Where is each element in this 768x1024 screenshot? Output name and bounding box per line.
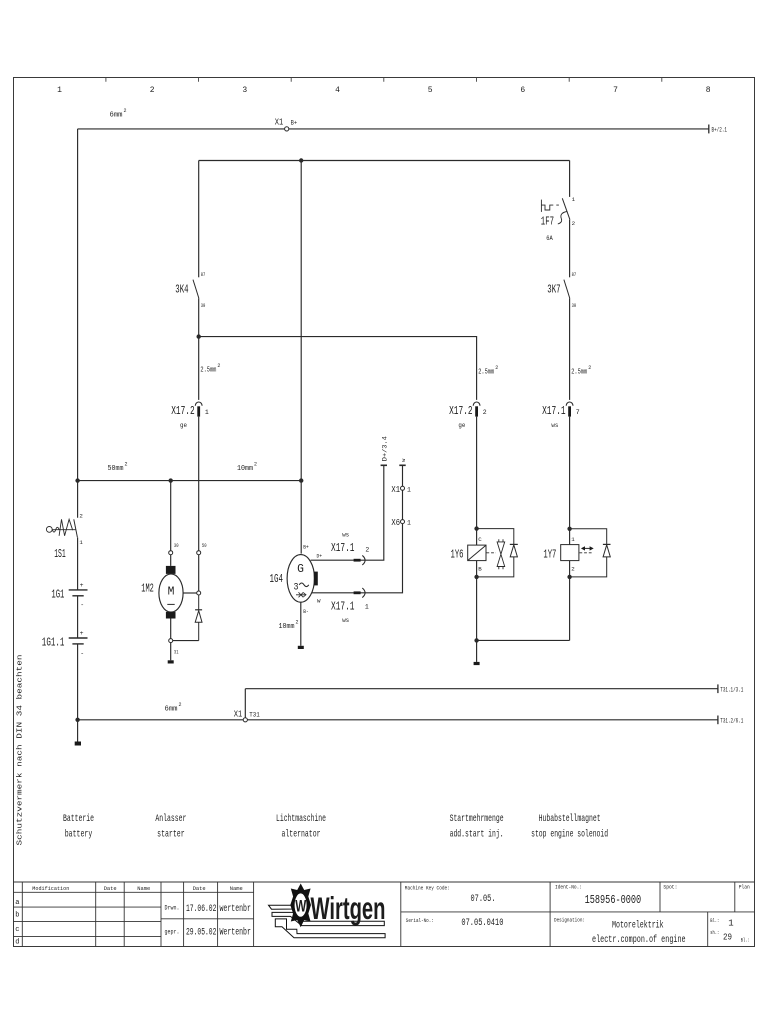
wire drop to 1F7 <box>569 161 571 197</box>
interface arrow T31.2/6.1 <box>717 716 719 725</box>
svg-text:Hubabstellmagnet: Hubabstellmagnet <box>539 813 601 825</box>
caption alternator <box>276 813 326 841</box>
wire X17.1:7 to 1Y7 <box>569 417 571 545</box>
caption battery <box>63 813 94 841</box>
svg-text:Plan: Plan <box>739 883 750 890</box>
svg-text:7: 7 <box>613 86 618 95</box>
ground alternator <box>298 646 304 649</box>
svg-text:X17.2: X17.2 <box>171 405 195 418</box>
svg-text:2: 2 <box>217 363 220 369</box>
svg-text:wertenbr: wertenbr <box>219 903 251 915</box>
svg-text:6A: 6A <box>546 235 553 242</box>
svg-text:07.05.: 07.05. <box>471 894 496 905</box>
wire T31.1 branch <box>245 688 718 690</box>
svg-text:87: 87 <box>201 271 206 278</box>
svg-text:X1: X1 <box>275 116 284 127</box>
wire 1Y7 to ground bus <box>569 561 571 641</box>
wire down to X17.2 pin1 <box>198 337 200 400</box>
svg-text:3K7: 3K7 <box>547 283 560 296</box>
terminator w mark <box>399 464 405 466</box>
ground battery <box>75 742 81 746</box>
svg-text:electr.compon.of engine: electr.compon.of engine <box>592 934 686 946</box>
svg-text:7: 7 <box>576 409 580 416</box>
wire 1G1.1 to bottom bus and ground <box>77 644 79 742</box>
title block header texts <box>32 885 243 892</box>
wire second bus (switched B+) <box>199 160 570 162</box>
label 50mm2 <box>108 462 128 474</box>
junction second bus / alternator column <box>299 158 303 162</box>
svg-text:50mm: 50mm <box>108 465 124 473</box>
svg-text:Modification: Modification <box>32 885 69 892</box>
svg-text:1G1.1: 1G1.1 <box>42 636 65 649</box>
revision row letters a b c d <box>15 899 19 947</box>
battery 1G1 <box>69 589 88 591</box>
svg-text:1: 1 <box>79 539 83 546</box>
svg-text:Anlasser: Anlasser <box>155 813 186 825</box>
connector X17.1 pin 2 inline <box>354 555 365 565</box>
svg-text:C: C <box>478 536 482 543</box>
junction 3K4 output node <box>197 334 201 338</box>
logo ring <box>293 892 307 918</box>
svg-text:2: 2 <box>150 86 155 95</box>
logo machine stripe upper <box>269 905 297 909</box>
svg-text:2: 2 <box>571 565 575 572</box>
label 10mm2 (B- wire) <box>279 620 299 632</box>
title block grid lines <box>13 882 754 947</box>
wire X17.2:1 to starter pin 50 <box>198 417 200 551</box>
svg-text:D+/3.4: D+/3.4 <box>381 436 388 461</box>
switch 1S1 blade <box>74 519 78 537</box>
svg-text:07.05.0410: 07.05.0410 <box>461 918 503 929</box>
wire motor bottom to pin 31 <box>170 619 172 639</box>
svg-text:31: 31 <box>174 648 179 655</box>
svg-text:X6: X6 <box>391 517 400 528</box>
svg-text:B+/2.1: B+/2.1 <box>712 126 728 133</box>
svg-text:+: + <box>80 582 84 589</box>
solenoid 1Y7 coil <box>561 545 579 561</box>
solenoid terminal circle <box>197 591 201 595</box>
svg-text:10mm: 10mm <box>237 465 253 473</box>
wire starter feed 30 <box>170 481 172 551</box>
solenoid valve 1Y6 coil <box>468 545 486 561</box>
svg-text:W: W <box>317 597 321 604</box>
svg-text:1G1: 1G1 <box>51 588 64 601</box>
svg-text:Schutzvermerk nach DIN 34 beac: Schutzvermerk nach DIN 34 beachten <box>17 655 25 846</box>
svg-text:Batterie: Batterie <box>63 813 94 825</box>
alternator 1G4 <box>287 555 318 603</box>
svg-text:Machine Key Code:: Machine Key Code: <box>405 884 450 891</box>
svg-text:2: 2 <box>365 547 369 554</box>
svg-text:-: - <box>80 602 84 609</box>
svg-text:Name: Name <box>137 885 150 892</box>
svg-text:4: 4 <box>335 86 340 95</box>
ruler tick marks top border <box>106 78 662 82</box>
label 10mm2 bus <box>237 462 257 474</box>
wire ground bus 1Y6-1Y7 <box>477 639 570 641</box>
svg-text:X1: X1 <box>391 484 400 495</box>
svg-text:2.5mm: 2.5mm <box>478 369 494 377</box>
svg-text:50: 50 <box>202 542 207 549</box>
terminal X1 T31 <box>243 718 247 722</box>
connector X17.1 pin 1 inline <box>354 588 365 598</box>
wire motor to solenoid terminal <box>183 592 197 594</box>
interface arrow T31.1/3.1 <box>717 684 719 693</box>
svg-text:3: 3 <box>294 582 299 593</box>
wire pin31 to diode branch <box>173 640 199 642</box>
wire X17.2:2 to 1Y6 <box>476 417 478 545</box>
svg-text:1M2: 1M2 <box>141 582 154 595</box>
wire 3K7 to X17.1 pin7 <box>569 298 571 400</box>
svg-text:Serial-No.:: Serial-No.: <box>406 917 434 924</box>
caption stop engine solenoid <box>531 813 608 841</box>
svg-text:1: 1 <box>407 520 411 527</box>
svg-text:w: w <box>401 458 407 462</box>
wire T31.1 drop to X1 T31 <box>244 689 246 718</box>
svg-text:6mm: 6mm <box>165 706 178 714</box>
svg-text:2.5mm: 2.5mm <box>571 369 587 377</box>
svg-text:W: W <box>295 897 307 916</box>
svg-text:starter: starter <box>157 829 185 841</box>
logo machine stripe lower with bottom band <box>275 919 385 938</box>
svg-text:battery: battery <box>65 829 93 841</box>
svg-text:-: - <box>80 650 84 657</box>
svg-text:1F7: 1F7 <box>541 215 554 228</box>
svg-text:1S1: 1S1 <box>54 548 66 561</box>
svg-text:10mm: 10mm <box>279 623 295 631</box>
svg-text:Wirtgen: Wirtgen <box>311 890 386 926</box>
svg-text:1: 1 <box>205 409 209 416</box>
svg-text:1: 1 <box>365 603 369 610</box>
starter 1M2 pin 50 <box>197 551 201 555</box>
svg-text:sh.:: sh.: <box>710 929 719 936</box>
svg-text:2: 2 <box>495 365 498 371</box>
svg-text:D+: D+ <box>317 553 323 560</box>
svg-text:2: 2 <box>254 462 257 468</box>
svg-text:Spot:: Spot: <box>663 883 677 890</box>
junction starter feed <box>169 478 173 482</box>
connector X17.2 pin 1 <box>195 402 202 417</box>
interface arrow B+/2.1 <box>708 125 710 134</box>
junction ground bus <box>474 638 478 642</box>
starter 1M2 pin 31 <box>169 639 173 643</box>
wire 1F7 to 3K7 <box>569 220 571 278</box>
svg-text:X17.1: X17.1 <box>331 542 355 555</box>
breaker 1F7 <box>541 198 570 224</box>
svg-text:5: 5 <box>428 86 433 95</box>
wire D+ to X17.1 pin 2 <box>311 466 384 560</box>
diode 1M2 freewheel <box>195 595 202 641</box>
adjustment arrow 1Y7 <box>579 546 593 553</box>
svg-text:B: B <box>478 565 482 572</box>
svg-text:1: 1 <box>57 86 62 95</box>
relay contact 3K4 <box>193 280 199 299</box>
svg-text:2: 2 <box>483 409 487 416</box>
label 6mm2 bottom bus <box>165 702 182 714</box>
svg-text:1: 1 <box>728 918 733 928</box>
svg-text:ge: ge <box>458 422 465 429</box>
diode 1Y6 suppressor branch <box>477 529 518 577</box>
wire main vertical to alternator B+ <box>300 161 302 554</box>
wire to ground 1Y6 <box>476 640 478 662</box>
svg-text:30: 30 <box>572 302 577 309</box>
svg-text:6mm: 6mm <box>110 112 123 120</box>
switch 1S1 actuator symbol <box>46 519 75 536</box>
svg-text:8: 8 <box>706 86 711 95</box>
svg-text:X17.1: X17.1 <box>542 405 566 418</box>
svg-text:Startmehrmenge: Startmehrmenge <box>450 813 504 825</box>
svg-text:2: 2 <box>179 702 182 708</box>
svg-text:c: c <box>15 926 19 934</box>
svg-text:Bl.:: Bl.: <box>710 917 719 924</box>
junction 1Y6 bottom <box>474 575 478 579</box>
machine key / ident block <box>405 883 750 946</box>
svg-text:d: d <box>15 938 19 946</box>
svg-text:B-: B- <box>303 608 309 615</box>
relay contact 3K7 <box>564 280 570 299</box>
svg-text:Name: Name <box>230 885 243 892</box>
wire 3K4 to node <box>198 298 200 336</box>
svg-text:2: 2 <box>124 108 127 114</box>
svg-text:87: 87 <box>572 271 577 278</box>
junction 1Y7 bottom <box>567 575 571 579</box>
svg-text:1: 1 <box>407 486 411 493</box>
wire top B+ bus 6mm2 <box>78 128 709 130</box>
svg-text:G: G <box>297 562 304 576</box>
svg-text:b: b <box>15 912 19 920</box>
svg-text:X1: X1 <box>234 708 243 719</box>
junction 1Y7 diode branch top <box>567 527 571 531</box>
svg-text:B+: B+ <box>291 119 298 126</box>
svg-text:2: 2 <box>79 513 83 520</box>
junction 1Y6 diode branch top <box>474 526 478 530</box>
svg-text:Drwn.: Drwn. <box>165 905 180 912</box>
svg-text:T31: T31 <box>249 711 260 718</box>
svg-text:+: + <box>80 630 84 637</box>
logo machine stripe middle with long band under text <box>272 912 384 925</box>
svg-text:Motorelektrik: Motorelektrik <box>612 919 664 931</box>
wire 50mm2 bus battery to alternator <box>78 480 302 482</box>
ground 1Y6 <box>474 662 480 665</box>
terminator D+/3.4 <box>381 464 387 466</box>
svg-text:stop engine solenoid: stop engine solenoid <box>531 829 608 841</box>
svg-text:3: 3 <box>242 86 247 95</box>
label 2.5mm2 (X17.2:2) <box>478 365 498 377</box>
svg-text:30: 30 <box>201 302 206 309</box>
svg-text:2: 2 <box>588 365 591 371</box>
svg-text:Date: Date <box>104 885 117 892</box>
logo star emblem <box>290 884 311 928</box>
label 6mm2 top bus <box>110 108 127 120</box>
caption add start injection <box>450 813 504 841</box>
svg-text:ws: ws <box>342 617 349 624</box>
wire 1G1 to 1G1.1 <box>77 596 79 638</box>
svg-text:M: M <box>168 585 175 598</box>
svg-text:T31.2/6.1: T31.2/6.1 <box>720 718 743 725</box>
battery 1G1.1 <box>69 637 88 639</box>
junction battery / bottom bus <box>75 718 79 722</box>
svg-text:1: 1 <box>572 196 576 203</box>
svg-text:ws: ws <box>342 531 349 538</box>
ground starter <box>168 660 174 663</box>
svg-text:Lichtmaschine: Lichtmaschine <box>276 813 326 825</box>
svg-text:2: 2 <box>296 620 299 626</box>
diode 1Y7 suppressor branch <box>570 529 611 577</box>
svg-text:X17.2: X17.2 <box>449 405 473 418</box>
starter 1M2 pin 30 <box>169 551 173 555</box>
svg-text:X17.1: X17.1 <box>331 600 355 613</box>
Wirtgen logo <box>269 884 386 938</box>
svg-text:3K4: 3K4 <box>175 283 188 296</box>
connector X17.1 pin 7 <box>566 402 573 417</box>
wire bottom ground bus 6mm2 <box>78 719 718 721</box>
svg-text:Bl.:: Bl.: <box>741 936 750 943</box>
svg-text:2: 2 <box>572 220 576 227</box>
svg-text:Date: Date <box>193 885 206 892</box>
svg-text:1Y6: 1Y6 <box>451 548 464 561</box>
svg-text:6: 6 <box>520 86 525 95</box>
svg-text:gepr.: gepr. <box>165 928 180 935</box>
label 2.5mm2 (X17.1:7) <box>571 365 591 377</box>
wire W to X1/X6 column <box>312 466 403 593</box>
wire pin50 to solenoid terminal <box>198 555 200 591</box>
wire 1S1 to battery 1G1 <box>77 538 79 590</box>
svg-text:29: 29 <box>723 932 732 942</box>
wire drop to 3K4 <box>198 161 200 278</box>
svg-text:add.start inj.: add.start inj. <box>450 829 504 841</box>
svg-text:2: 2 <box>125 462 128 468</box>
motor 1M2 <box>159 555 183 619</box>
wire B- to ground <box>300 602 302 646</box>
wire 1Y6 to ground bus <box>476 561 478 641</box>
wire bus to 1Y6 column <box>199 337 477 400</box>
svg-text:1G4: 1G4 <box>270 573 284 586</box>
svg-text:a: a <box>15 899 19 907</box>
svg-text:T31.1/3.1: T31.1/3.1 <box>720 686 743 693</box>
terminal X1 B+ on top bus <box>285 127 289 131</box>
svg-text:2.5mm: 2.5mm <box>200 367 216 375</box>
valve symbol 1Y6 <box>486 539 504 569</box>
ruler column numbers <box>57 86 711 95</box>
svg-text:17.06.02: 17.06.02 <box>186 903 217 915</box>
wire left main vertical (battery feed) <box>77 129 79 518</box>
svg-text:30: 30 <box>174 542 179 549</box>
svg-text:ws: ws <box>551 422 558 429</box>
junction battery / 50mm2 bus <box>75 478 79 482</box>
svg-text:ge: ge <box>180 422 187 429</box>
caption starter <box>155 813 186 841</box>
terminal X6 pin 1 <box>401 520 405 524</box>
wire pin 31 to ground <box>170 643 172 661</box>
svg-text:158956-0000: 158956-0000 <box>585 893 642 907</box>
svg-text:29.05.02: 29.05.02 <box>186 926 217 938</box>
drawn / approved block <box>165 903 251 939</box>
terminal X1 pin 1 <box>401 486 405 490</box>
svg-text:1: 1 <box>571 536 575 543</box>
svg-text:Designation:: Designation: <box>554 916 585 923</box>
svg-text:B+: B+ <box>303 544 309 551</box>
connector X17.2 pin 2 <box>473 402 480 417</box>
svg-text:Ident-No.:: Ident-No.: <box>555 883 582 890</box>
svg-text:alternator: alternator <box>282 829 321 841</box>
label 2.5mm2 (X17.2:1) <box>200 363 220 375</box>
junction alternator / 10mm2 bus <box>299 478 303 482</box>
svg-text:Wertenbr: Wertenbr <box>219 926 251 938</box>
svg-text:1Y7: 1Y7 <box>543 548 556 561</box>
